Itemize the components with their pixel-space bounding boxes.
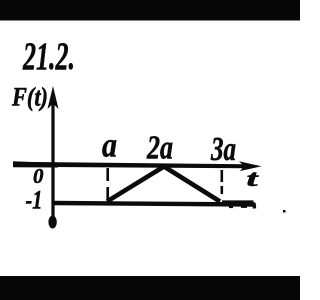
svg-text:3a: 3a (210, 131, 236, 168)
horizontal axis t (13, 162, 245, 169)
svg-text:0: 0 (33, 164, 44, 188)
speck (283, 210, 286, 213)
speck under baseline (229, 206, 233, 209)
top black bar (0, 0, 300, 21)
horizontal axis left thick part (13, 161, 58, 167)
triangle pulse (107, 167, 220, 202)
dashed guide at a (106, 168, 109, 200)
f(t) = -1 baseline right thick end with hook (222, 200, 254, 206)
horizontal axis arrowhead (239, 161, 262, 171)
bottom black bar (0, 276, 300, 300)
svg-text:21.2.: 21.2. (22, 35, 75, 78)
f(t) = -1 baseline (54, 203, 255, 205)
vertical axis F(t) (51, 100, 54, 224)
svg-text:a: a (102, 126, 117, 165)
svg-text:t: t (247, 166, 259, 191)
vertical axis bottom blob (48, 216, 56, 229)
dashed guide at 3a (221, 170, 224, 194)
svg-text:-1: -1 (26, 186, 43, 215)
svg-text:F(t): F(t) (11, 83, 48, 112)
vertical axis arrowhead (48, 86, 59, 109)
svg-text:2a: 2a (146, 130, 173, 167)
